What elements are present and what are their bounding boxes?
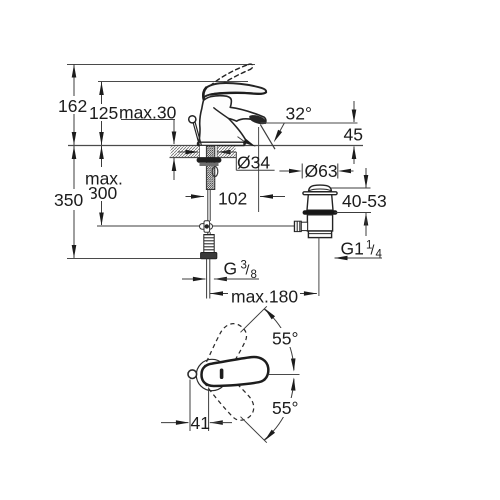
svg-text:55°: 55° (272, 329, 298, 349)
waste lower body (307, 215, 332, 231)
dimension 125 vertical line (101, 82, 103, 105)
pull rod knob (189, 116, 196, 123)
solid lever plan (202, 357, 269, 386)
svg-text:162: 162 (58, 96, 87, 116)
dimension 102 (258, 127, 260, 212)
waste linkage knurled nut (294, 221, 301, 231)
deck bottom line (170, 157, 237, 159)
text 125 (87, 105, 118, 120)
pull rod (193, 123, 199, 145)
reference line 162 level (67, 64, 255, 66)
svg-text:G: G (224, 259, 238, 279)
deck surface line (68, 145, 363, 147)
svg-text:Ø63: Ø63 (305, 161, 338, 181)
svg-text:350: 350 (54, 190, 83, 210)
lever handle (203, 83, 266, 99)
svg-text:/: / (371, 242, 375, 258)
dashed lever down 55 (197, 355, 259, 426)
text 55 upper (271, 328, 303, 347)
dimension 45 (353, 101, 355, 122)
aerator (249, 115, 265, 124)
dashed raised lever (205, 64, 253, 94)
svg-text:55°: 55° (272, 398, 298, 418)
text 350 (53, 190, 91, 207)
connector collar (201, 253, 217, 259)
body front contour (214, 108, 229, 119)
dashed lever up 55 (192, 319, 254, 390)
text 162 (57, 97, 87, 113)
svg-text:8: 8 (251, 269, 257, 281)
deck hatch right (217, 146, 236, 157)
deck hatch left (171, 146, 200, 157)
svg-text:102: 102 (218, 189, 247, 209)
rod below joint (207, 232, 209, 235)
threaded shank (197, 146, 222, 190)
svg-text:max.30: max.30 (119, 103, 177, 123)
lever underside shade (211, 92, 267, 94)
rod ball joint (200, 221, 213, 232)
supply tube (206, 259, 208, 299)
lever plan inner mark (220, 369, 224, 380)
waste upper body (307, 195, 333, 211)
label G3/8 (182, 278, 205, 280)
plan centerline (269, 374, 300, 376)
waste seal ring (303, 210, 338, 215)
55 lower extension line (241, 417, 267, 443)
32 leader arrow left (238, 137, 248, 144)
55 upper arc (264, 309, 294, 370)
waste plug dome (309, 185, 332, 192)
svg-text:G1: G1 (341, 239, 364, 259)
cap circle (196, 359, 227, 390)
dimension Ø34 (178, 151, 198, 153)
55 upper extension line (241, 306, 267, 332)
svg-text:45: 45 (344, 125, 363, 145)
dimension max.300 vertical line (101, 146, 103, 167)
svg-text:32°: 32° (286, 104, 312, 124)
32 degree spout angle (260, 122, 357, 124)
dimension 350 vertical line (73, 146, 75, 189)
32 leader arrow right (277, 123, 285, 137)
dimension Ø63 (301, 164, 303, 179)
G3/8 threaded connector (204, 235, 214, 253)
rod guide loop (212, 167, 218, 177)
dimension 40-53 (365, 168, 367, 188)
svg-text:125: 125 (89, 103, 118, 123)
svg-text:/: / (246, 262, 250, 278)
water stream line (260, 125, 275, 150)
pop-up waste assembly (294, 185, 337, 237)
waste flange (303, 192, 337, 195)
dimension 41 (189, 380, 191, 432)
plan knob (188, 370, 197, 379)
lock nut (197, 157, 222, 162)
svg-text:41: 41 (191, 413, 210, 433)
text 55 lower (271, 398, 303, 417)
pop-up rod vertical (207, 190, 209, 222)
reference line 125 level (98, 81, 248, 83)
base plate (198, 142, 245, 145)
55 lower arc (264, 379, 294, 440)
svg-text:40-53: 40-53 (342, 191, 387, 211)
svg-text:4: 4 (376, 249, 383, 261)
lever back hook (203, 88, 206, 100)
deck hole walls (199, 146, 201, 158)
pop-up rod horizontal line (97, 225, 294, 227)
dimension max.180 (210, 293, 228, 295)
waste linkage boss (301, 222, 307, 230)
svg-text:Ø34: Ø34 (237, 153, 270, 173)
text 41 (192, 414, 208, 430)
waste tail centerline (318, 238, 320, 296)
faucet front view (189, 64, 266, 145)
waste bottom collar (308, 231, 331, 238)
svg-text:300: 300 (88, 183, 117, 203)
text max. 300 (84, 169, 123, 200)
dimension max.30 leader and line (121, 119, 175, 121)
dimension 162 vertical line (73, 64, 75, 96)
svg-text:max.180: max.180 (231, 287, 298, 307)
350 bottom reference line (67, 258, 206, 260)
faucet body (199, 96, 266, 146)
